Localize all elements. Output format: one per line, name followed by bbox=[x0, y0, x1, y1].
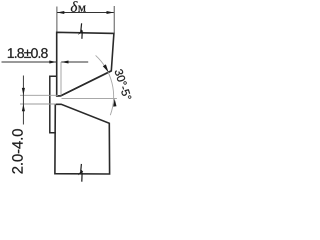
angle extension line (gray) bbox=[62, 97, 117, 99]
gap dim lower arrow bbox=[22, 104, 25, 111]
gap lower extension line (gray) bbox=[20, 103, 56, 105]
label 30deg-5deg (rotated) bbox=[115, 69, 131, 98]
extension line left for thickness dim bbox=[56, 7, 58, 32]
angle arc upper arrow bbox=[103, 64, 109, 72]
root face dim line left part bbox=[2, 61, 57, 63]
extension line right for thickness dim bbox=[113, 6, 115, 33]
root face dim line right part bbox=[61, 61, 88, 63]
thickness dimension line bbox=[57, 12, 114, 14]
break symbol on bottom edge bbox=[80, 164, 83, 172]
angle dimension arc bbox=[96, 55, 114, 115]
root face dim left arrow bbox=[49, 60, 56, 63]
label 1.8+-0.8 bbox=[8, 48, 48, 58]
break symbol on top edge bbox=[80, 23, 83, 31]
gap dim upper arrow bbox=[22, 88, 25, 95]
gap upper extension line (gray) bbox=[20, 94, 58, 96]
upper plate bevel edge (redraw for weight) bbox=[57, 71, 112, 96]
root face dim right arrow bbox=[61, 60, 68, 63]
label 2.0-4.0 (rotated) bbox=[12, 129, 23, 173]
thickness dim left arrow bbox=[57, 11, 64, 14]
angle arc lower arrow bbox=[113, 99, 116, 107]
lower plate outline bbox=[55, 104, 110, 174]
backing strip bbox=[50, 76, 57, 133]
thickness dim right arrow bbox=[107, 11, 114, 14]
label delta-m bbox=[71, 1, 78, 12]
gap dimension line bbox=[22, 76, 24, 125]
upper plate outline bbox=[57, 32, 114, 96]
root face extension line (gray) bbox=[60, 62, 62, 96]
